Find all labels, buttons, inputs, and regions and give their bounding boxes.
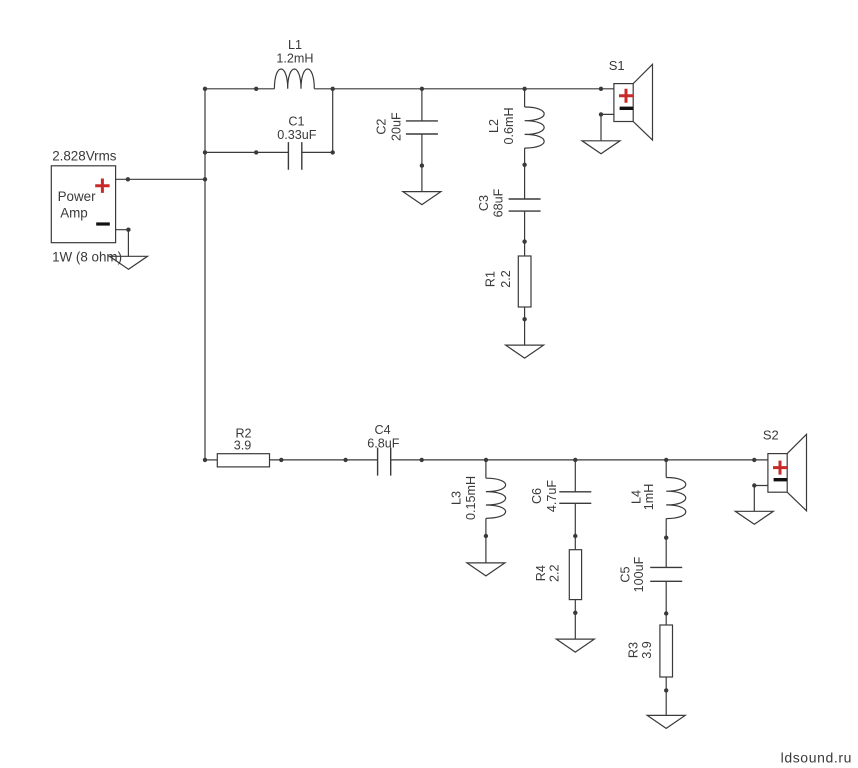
label L1 1.2mH bbox=[276, 38, 313, 66]
wire: L4 top lead bbox=[665, 460, 667, 478]
svg-text:3.9: 3.9 bbox=[234, 438, 252, 452]
junction dot S1 minus bbox=[599, 112, 603, 116]
junction dot L4 bottom bbox=[664, 536, 668, 540]
wire: L4 to C5 bbox=[665, 519, 667, 568]
svg-text:0.6mH: 0.6mH bbox=[502, 107, 516, 144]
label L2 0.6mH bbox=[487, 107, 516, 144]
ground under R1 bbox=[506, 345, 544, 358]
svg-text:C2: C2 bbox=[375, 119, 389, 135]
junction dot C6 top bbox=[573, 458, 577, 462]
label L4 1mH bbox=[629, 484, 656, 511]
label R1 2.2 bbox=[484, 270, 514, 288]
svg-text:3.9: 3.9 bbox=[640, 641, 654, 659]
svg-text:2.2: 2.2 bbox=[499, 270, 513, 288]
svg-text:Amp: Amp bbox=[60, 205, 88, 220]
junction dot C2 top bbox=[420, 87, 424, 91]
wire: bottom rail to R2 bbox=[205, 459, 217, 461]
power amp source V1 bbox=[51, 166, 115, 243]
junction dot R1 bottom bbox=[522, 317, 526, 321]
resistor R2 bbox=[217, 454, 269, 467]
junction dot before C4 bbox=[343, 458, 347, 462]
ground under L3 bbox=[467, 563, 505, 576]
svg-text:Power: Power bbox=[58, 189, 96, 204]
inductor L2 bbox=[525, 107, 545, 148]
svg-text:S2: S2 bbox=[763, 428, 779, 443]
junction dot after R2 bbox=[279, 458, 283, 462]
wire: C3 to R1 bbox=[524, 211, 526, 256]
svg-text:4.7uF: 4.7uF bbox=[545, 480, 559, 513]
ground under R3 bbox=[647, 715, 685, 728]
label R4 2.2 bbox=[534, 564, 561, 582]
junction dot S1 plus node bbox=[599, 87, 603, 91]
wire: C1 branch right with riser bbox=[302, 89, 333, 153]
svg-text:C5: C5 bbox=[619, 566, 633, 582]
svg-text:R1: R1 bbox=[484, 271, 498, 287]
ground under R4 bbox=[556, 639, 594, 652]
wire: top rail left of L1 bbox=[205, 88, 274, 90]
resistor R1 bbox=[518, 256, 531, 307]
wire: C2 top lead bbox=[421, 89, 423, 121]
label C5 100uF bbox=[619, 556, 647, 592]
capacitor C3 bbox=[509, 199, 541, 211]
speaker S1 minus mark bbox=[620, 107, 634, 110]
svg-text:R3: R3 bbox=[627, 642, 641, 658]
wire: L2 to C3 bbox=[524, 148, 526, 199]
power amp plus terminal mark bbox=[95, 179, 109, 193]
junction dot L3 bottom bbox=[484, 534, 488, 538]
junction dot after C4 bbox=[420, 458, 424, 462]
junction dot L2 top bbox=[522, 87, 526, 91]
junction dot C3 bottom bbox=[522, 239, 526, 243]
watermark ldsound.ru bbox=[781, 750, 852, 766]
svg-text:0.33uF: 0.33uF bbox=[277, 128, 317, 142]
junction dot C1 branch bbox=[254, 150, 258, 154]
wire: C2 bottom lead bbox=[421, 134, 423, 192]
power amp label 2.828Vrms bbox=[52, 148, 117, 163]
junction dot L4 top bbox=[664, 458, 668, 462]
label R3 3.9 bbox=[627, 641, 654, 659]
svg-text:0.15mH: 0.15mH bbox=[464, 476, 478, 520]
svg-text:1mH: 1mH bbox=[642, 484, 656, 511]
inductor L4 bbox=[666, 478, 686, 519]
svg-text:L2: L2 bbox=[487, 119, 501, 133]
wire: C6 top lead bbox=[574, 460, 576, 492]
junction dot C6 bottom bbox=[573, 534, 577, 538]
label S1 bbox=[609, 58, 625, 73]
svg-text:20uF: 20uF bbox=[389, 112, 403, 141]
junction dot S2 minus bbox=[752, 483, 756, 487]
wire: S2 minus to ground bbox=[754, 486, 768, 512]
junction dot S2 plus node bbox=[752, 458, 756, 462]
capacitor C6 bbox=[559, 492, 591, 504]
inductor L3 bbox=[486, 478, 506, 518]
inductor L1 bbox=[274, 69, 314, 89]
svg-text:100uF: 100uF bbox=[632, 556, 646, 592]
capacitor C2 bbox=[406, 121, 438, 134]
junction dot L1C1 right node top bbox=[331, 87, 335, 91]
junction dot on plus wire bbox=[126, 177, 130, 181]
power amp label Power Amp bbox=[58, 189, 96, 220]
junction dot L3 top bbox=[484, 458, 488, 462]
wire: PA minus stub bbox=[116, 230, 129, 257]
junction dot R3 bottom bbox=[664, 688, 668, 692]
junction dot C1 branch at bus bbox=[203, 150, 207, 154]
speaker S2 minus mark bbox=[774, 478, 788, 481]
svg-text:C6: C6 bbox=[530, 488, 544, 504]
wire: L3 to ground bbox=[485, 518, 487, 563]
ground under S2 bbox=[735, 511, 773, 524]
junction dot R4 bottom bbox=[573, 611, 577, 615]
speaker S1 plus mark bbox=[619, 89, 633, 103]
label R2 3.9 bbox=[234, 426, 252, 452]
wire: top rail right of L1 to S1 bbox=[314, 88, 614, 90]
capacitor C1 bbox=[288, 142, 301, 170]
wire: C1 branch left bbox=[205, 151, 288, 153]
junction dot C5 bottom bbox=[664, 611, 668, 615]
label S2 bbox=[763, 428, 779, 443]
wire: L2 top lead bbox=[524, 89, 526, 107]
junction dot C1 right node bbox=[331, 150, 335, 154]
svg-text:ldsound.ru: ldsound.ru bbox=[781, 750, 852, 766]
svg-text:1.2mH: 1.2mH bbox=[276, 52, 313, 66]
wire: R2 to C4 bbox=[270, 459, 378, 461]
speaker S2 plus mark bbox=[773, 461, 787, 475]
junction dot bus bottom corner bbox=[203, 458, 207, 462]
wire: R3 to ground bbox=[665, 677, 667, 715]
svg-text:68uF: 68uF bbox=[492, 188, 506, 217]
speaker S1 bbox=[614, 64, 653, 140]
junction dot plus wire at bus bbox=[203, 177, 207, 181]
svg-text:2.828Vrms: 2.828Vrms bbox=[52, 148, 117, 163]
junction dot C2 lead bbox=[420, 163, 424, 167]
svg-text:2.2: 2.2 bbox=[548, 564, 562, 582]
ground under power amp bbox=[110, 256, 148, 269]
svg-text:C1: C1 bbox=[288, 114, 304, 128]
ground under C2 bbox=[403, 192, 441, 205]
svg-text:C4: C4 bbox=[375, 423, 391, 437]
capacitor C5 bbox=[650, 567, 682, 581]
svg-text:6.8uF: 6.8uF bbox=[367, 436, 400, 450]
wire: L3 top lead bbox=[485, 460, 487, 478]
svg-text:L1: L1 bbox=[288, 38, 302, 52]
wire: C6 to R4 bbox=[574, 503, 576, 549]
wire: R4 to ground bbox=[574, 600, 576, 640]
wire: R1 to ground bbox=[524, 307, 526, 345]
power amp label 1W (8 ohm) bbox=[52, 250, 122, 265]
label C6 4.7uF bbox=[530, 480, 559, 513]
svg-text:C3: C3 bbox=[477, 195, 491, 211]
svg-text:L3: L3 bbox=[449, 491, 463, 505]
label C4 6.8uF bbox=[367, 423, 400, 451]
junction dot bus top corner bbox=[203, 87, 207, 91]
resistor R4 bbox=[569, 550, 581, 600]
label C3 68uF bbox=[477, 188, 506, 217]
capacitor C4 bbox=[378, 448, 391, 476]
ground under S1 bbox=[582, 141, 620, 154]
junction dot on minus wire bbox=[126, 228, 130, 232]
resistor R3 bbox=[660, 625, 673, 677]
wire: C4 to S2 bbox=[391, 459, 768, 461]
wire: S1 minus to ground bbox=[601, 114, 614, 140]
wire: main vertical bus bbox=[204, 89, 206, 460]
label L3 0.15mH bbox=[449, 476, 478, 520]
junction dot top rail bbox=[254, 87, 258, 91]
wire: C5 to R3 bbox=[665, 581, 667, 625]
power amp minus terminal mark bbox=[96, 222, 110, 225]
label C1 0.33uF bbox=[277, 114, 317, 141]
wire: PA plus to bus bbox=[116, 178, 205, 180]
speaker S2 bbox=[768, 434, 807, 511]
junction dot L2 bottom bbox=[522, 163, 526, 167]
label C2 20uF bbox=[375, 112, 404, 141]
svg-text:S1: S1 bbox=[609, 58, 625, 73]
svg-text:R4: R4 bbox=[534, 565, 548, 581]
